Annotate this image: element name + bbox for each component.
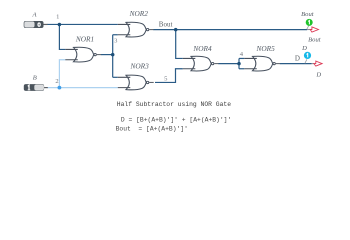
- svg-text:2: 2: [55, 78, 58, 85]
- svg-text:Bout: Bout: [301, 11, 314, 18]
- svg-text:D: D: [301, 45, 307, 52]
- svg-text:Bout = [A+(A+B)']': Bout = [A+(A+B)']': [116, 126, 188, 133]
- svg-text:NOR3: NOR3: [129, 62, 149, 71]
- svg-text:NOR5: NOR5: [255, 44, 275, 53]
- svg-text:NOR2: NOR2: [129, 9, 149, 18]
- svg-text:B: B: [33, 75, 37, 82]
- svg-text:D: D: [295, 55, 300, 63]
- svg-text:Bout: Bout: [159, 21, 173, 29]
- svg-text:NOR1: NOR1: [75, 34, 94, 43]
- svg-text:D: D: [315, 71, 321, 78]
- svg-text:NOR4: NOR4: [192, 44, 212, 53]
- svg-text:Bout: Bout: [308, 37, 321, 44]
- svg-text:D = [B+(A+B)']' + [A+(A+B)']': D = [B+(A+B)']' + [A+(A+B)']': [121, 116, 231, 123]
- svg-text:1: 1: [56, 13, 59, 20]
- svg-text:Half Subtractor using NOR Gate: Half Subtractor using NOR Gate: [117, 101, 231, 108]
